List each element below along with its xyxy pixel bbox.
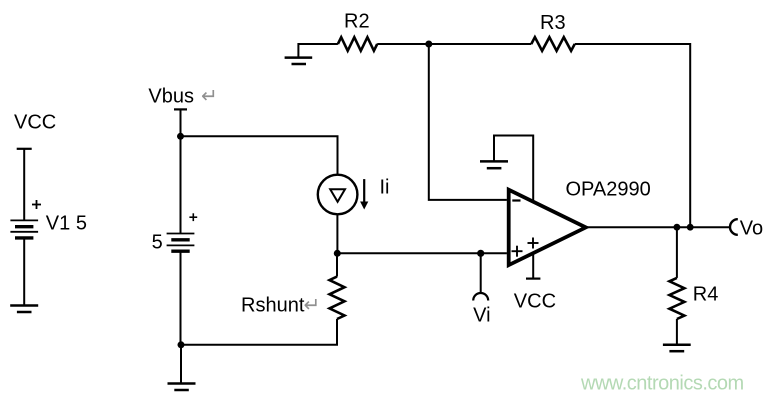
label R3 <box>540 12 566 34</box>
ground below R4 <box>663 345 691 351</box>
port Vo <box>730 219 738 235</box>
svg-text:VCC: VCC <box>14 112 56 134</box>
current arrow Ii <box>360 179 368 209</box>
node Vbus label <box>148 86 217 108</box>
junction dot Vbus <box>177 133 184 140</box>
svg-text:VCC: VCC <box>514 290 556 312</box>
label R4 <box>693 284 719 306</box>
current source Ii <box>318 175 358 215</box>
svg-text:OPA2990: OPA2990 <box>566 179 651 201</box>
svg-text:Vbus: Vbus <box>148 86 194 108</box>
Vbus pin end bar <box>174 108 187 110</box>
junction dot output feedback <box>687 224 694 231</box>
voltage source V2 value 5 <box>167 213 198 251</box>
label Rshunt <box>241 295 320 317</box>
port Vi <box>473 293 488 300</box>
resistor R3 <box>531 37 574 51</box>
svg-text:5: 5 <box>152 232 163 254</box>
svg-text:↵: ↵ <box>201 86 218 108</box>
svg-text:Vo: Vo <box>740 218 763 240</box>
wire current source bottom <box>336 214 338 253</box>
wire noninverting input <box>337 252 507 254</box>
label Vo <box>740 218 763 240</box>
wire bottom return <box>181 344 338 346</box>
wire Vbus vertical <box>180 109 182 233</box>
svg-text:R2: R2 <box>344 11 370 33</box>
svg-text:Ii: Ii <box>380 177 390 199</box>
label VCC (op-amp supply) <box>514 290 556 312</box>
svg-text:Vi: Vi <box>473 305 490 327</box>
wire output <box>586 226 730 228</box>
wire R3 to output node <box>575 44 691 227</box>
node VCC label (left) <box>14 112 56 134</box>
op-amp U1 OPA2990 <box>509 190 586 265</box>
svg-text:V1 5: V1 5 <box>46 213 87 235</box>
voltage source V1 <box>10 149 41 306</box>
wire to ground <box>180 345 182 384</box>
svg-text:Rshunt: Rshunt <box>241 295 305 317</box>
wire R2 to R3 <box>377 43 531 45</box>
ground bottom middle <box>168 384 196 391</box>
label OPA2990 <box>566 179 651 201</box>
resistor R2 <box>338 37 377 51</box>
ground below V1 <box>10 306 38 313</box>
svg-text:R4: R4 <box>693 284 719 306</box>
ground op-amp top supply <box>480 161 508 168</box>
svg-text:www.cntronics.com: www.cntronics.com <box>580 373 744 395</box>
wire Vi stub <box>480 253 482 292</box>
svg-text:↵: ↵ <box>304 295 321 317</box>
junction dot Vi <box>477 250 484 257</box>
label R2 <box>344 11 370 33</box>
label Ii <box>380 177 390 199</box>
wire Vbus to current source top <box>181 136 338 175</box>
label Vi <box>473 305 490 327</box>
wire battery bottom to bottom junction <box>180 251 182 345</box>
op-amp top supply wire to ground <box>494 136 533 203</box>
resistor Rshunt <box>330 253 345 344</box>
junction dot shunt node <box>334 250 341 257</box>
label V1 5 <box>46 213 87 235</box>
resistor R4 <box>669 227 684 345</box>
op-amp bottom supply pin VCC <box>526 253 540 279</box>
svg-text:R3: R3 <box>540 12 566 34</box>
junction dot output R4 <box>674 224 681 231</box>
junction dot feedback node <box>425 41 432 48</box>
junction dot bottom <box>178 341 185 348</box>
wire inverting input <box>429 44 507 200</box>
ground left of R2 <box>285 44 338 64</box>
label 5 <box>152 232 163 254</box>
watermark <box>580 373 744 395</box>
